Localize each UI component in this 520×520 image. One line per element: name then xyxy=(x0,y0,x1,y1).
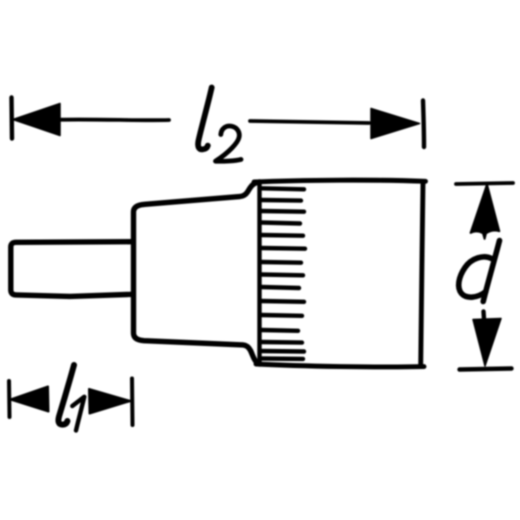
dimension l2 left arrowhead xyxy=(13,104,60,136)
label d stem xyxy=(483,241,499,302)
dimension l1 right tick xyxy=(130,379,135,426)
collar outline xyxy=(134,183,258,364)
knurl tooth 12 xyxy=(261,328,298,333)
dimension l2 right tick xyxy=(423,101,424,148)
dimension l1 left arrowhead xyxy=(11,387,49,412)
dimension l2 right line xyxy=(250,121,369,123)
dimension l1 right arrowhead xyxy=(89,389,131,414)
socket body top edge xyxy=(254,180,426,182)
knurl tooth 5 xyxy=(261,233,303,238)
dimension l2 left tick xyxy=(9,98,14,139)
dimension l2 right arrowhead xyxy=(371,109,420,139)
knurl tooth 8 xyxy=(261,272,303,277)
knurl tooth 4 xyxy=(261,223,300,224)
knurl tooth 15 xyxy=(261,356,303,361)
knurl tooth 3 xyxy=(261,209,304,214)
label l1 letter l xyxy=(58,365,74,425)
dimension l2 left line xyxy=(60,118,169,122)
socket body left edge xyxy=(257,182,261,365)
label l2 subscript 2 xyxy=(216,126,242,161)
dimension l1 left tick xyxy=(7,381,12,417)
dimension d up arrowhead xyxy=(471,185,500,239)
knurl tooth 1 xyxy=(261,188,304,189)
knurl tooth 11 xyxy=(261,313,302,318)
label d bowl xyxy=(459,257,492,297)
label l1 subscript 1 xyxy=(72,397,84,431)
knurl tooth 14 xyxy=(261,349,304,354)
knurl tooth 7 xyxy=(261,260,301,265)
knurl tooth 2 xyxy=(261,198,301,203)
label l2 letter l xyxy=(198,88,212,150)
dimension d bottom tick xyxy=(460,369,512,370)
dimension d down arrowhead xyxy=(473,319,501,367)
knurl tooth 9 xyxy=(261,287,299,288)
dimension d down arrow stem xyxy=(481,312,486,320)
knurl tooth 13 xyxy=(261,340,302,345)
socket body bottom edge xyxy=(256,364,424,367)
dimension d top tick xyxy=(456,183,513,184)
knurl tooth 10 xyxy=(261,299,304,304)
bit shaft outline xyxy=(11,242,133,297)
knurl tooth 6 xyxy=(261,246,305,251)
socket body right edge xyxy=(421,182,423,366)
